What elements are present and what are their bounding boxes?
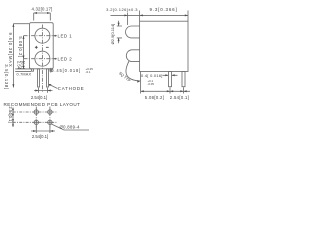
side bottom ext lead B: [183, 87, 185, 93]
side lead A: [169, 72, 172, 87]
minus polarity mark: [46, 46, 49, 48]
SQ TYP arc leader: [126, 61, 140, 82]
svg-text:3.2[0.126]±0.3: 3.2[0.126]±0.3: [106, 7, 138, 12]
arrow lead width right: [172, 74, 175, 76]
bottom peg left: [32, 69, 34, 71]
pcb vertical dim line: [12, 108, 14, 128]
pcb centerline row2: [13, 121, 57, 123]
side view housing outline: [140, 21, 188, 71]
svg-text:0.7MAX: 0.7MAX: [17, 73, 32, 77]
arrow lead pitch left: [35, 90, 38, 92]
svg-text:0.4[ 0.016]: 0.4[ 0.016]: [141, 73, 163, 78]
LED2 horizontal centerline: [24, 58, 57, 60]
arrow dim4.32 left: [34, 12, 37, 14]
arrow 2.54side bottom: [23, 66, 25, 69]
arrow 9.6 bottom: [12, 84, 14, 87]
pcb centerline col2: [49, 107, 51, 128]
dim 0.7MAX bracket: [15, 69, 31, 72]
dim 5.08 dimension line: [23, 36, 25, 59]
dim 9.3 dimension line: [140, 14, 188, 16]
svg-text:5.08[0.2]: 5.08[0.2]: [145, 95, 164, 100]
arrow dim4.32 right: [47, 12, 50, 14]
svg-text:RECOMMENDED PCB LAYOUT: RECOMMENDED PCB LAYOUT: [4, 102, 81, 107]
arrow 5.08 bottom: [23, 56, 25, 59]
svg-text:Ø2.9[0.114]: Ø2.9[0.114]: [110, 24, 115, 45]
dim 2.54 side dimension line: [23, 59, 25, 69]
arrow led1 leader: [53, 35, 56, 37]
side bottom dim line: [141, 90, 190, 92]
svg-text:2.54[0.1]: 2.54[0.1]: [31, 95, 47, 100]
arrow pcb lower right: [50, 130, 53, 132]
LED1 horizontal centerline: [24, 35, 57, 37]
arrow pcb vdim bottom: [12, 119, 14, 125]
arrow side bottom leadB left: [180, 90, 183, 92]
svg-text:[0.1]: [0.1]: [21, 61, 26, 69]
arrow 9.3 left: [140, 14, 143, 16]
dim 4.32 extension lines: [34, 13, 51, 21]
svg-text:5.08[0.2]: 5.08[0.2]: [18, 36, 23, 57]
front lead right (cathode): [47, 69, 49, 87]
pcb centerline row1: [13, 111, 57, 113]
front lead left: [38, 69, 40, 87]
dome diameter dim lines: [117, 21, 122, 44]
plus polarity mark: [35, 46, 38, 49]
pcb lower dim ext lines: [36, 125, 50, 133]
arrow sq typ arc: [137, 80, 140, 83]
svg-text:0.45[0.018]: 0.45[0.018]: [51, 68, 81, 73]
arrow lead width left: [165, 74, 168, 76]
arrow led2 leader: [53, 58, 56, 60]
arrow side bottom leadA left: [167, 90, 170, 92]
arrow pcb lower left: [33, 130, 36, 132]
svg-text:SQ TYP: SQ TYP: [118, 71, 132, 83]
svg-text:LED 1: LED 1: [58, 33, 73, 38]
arrow dome dia top: [118, 23, 120, 26]
arrow side bottom leadA right: [170, 90, 173, 92]
arrow dome dia bottom: [118, 38, 120, 41]
svg-text:9.3[0.366]: 9.3[0.366]: [149, 7, 177, 12]
lead square size leader tick: [50, 68, 52, 73]
arrow side bottom leadB right: [184, 90, 187, 92]
dim 3.2 dimension line: [111, 14, 140, 16]
svg-text:3.5[0.138]: 3.5[0.138]: [4, 64, 9, 90]
dim 9.6/3.5 dimension line: [12, 24, 14, 88]
svg-text:LED 2: LED 2: [58, 56, 73, 61]
svg-text:-0.1: -0.1: [86, 70, 91, 74]
svg-text:4.32[0.17]: 4.32[0.17]: [32, 7, 53, 12]
pcb lower dim line: [31, 130, 55, 132]
pcb hole crosshairs: [34, 109, 53, 125]
arrow 9.3 right: [185, 14, 188, 16]
svg-text:CATHODE: CATHODE: [58, 86, 85, 91]
dome LED 1: [126, 26, 140, 38]
LED 2 lens circle: [35, 51, 50, 66]
dim 4.32 dimension line: [34, 12, 51, 14]
pcb centerline col1: [35, 107, 37, 128]
front view housing outline: [30, 23, 54, 69]
LED2 leader: [54, 58, 57, 60]
LED1 leader: [54, 35, 57, 37]
cathode leader line: [49, 84, 58, 88]
svg-text:2.54[0.1]: 2.54[0.1]: [8, 106, 13, 122]
side bottom ext housing front: [140, 72, 142, 94]
arrow 5.08 top: [23, 36, 25, 39]
housing right edge extension up: [187, 11, 189, 22]
arrow 9.6 top: [12, 24, 14, 27]
svg-text:2.54[0.1]: 2.54[0.1]: [170, 95, 189, 100]
side lead B: [182, 72, 185, 87]
arrow 3.2 right: [124, 14, 127, 16]
dome LED 2: [126, 50, 139, 62]
svg-text:9.6[0.38]MAX: 9.6[0.38]MAX: [8, 33, 13, 68]
bottom peg right: [50, 69, 52, 71]
arrow pcb vdim top: [12, 109, 14, 115]
dim 3.2 extension line at dome tip: [127, 13, 129, 26]
pcb hole top-left: [34, 110, 38, 114]
front lead pitch dim line: [34, 90, 53, 92]
arrow side bottom at front edge: [141, 90, 144, 92]
svg-text:2.54[0.1]: 2.54[0.1]: [32, 134, 48, 139]
arrow cathode leader: [49, 84, 52, 86]
svg-text:Ø0.889-4: Ø0.889-4: [60, 124, 81, 129]
pcb hole bottom-right: [48, 120, 52, 124]
arrowheads: [12, 12, 188, 132]
arrow lead pitch right: [48, 90, 51, 92]
pcb hole top-right: [48, 110, 52, 114]
pcb hole bottom-left: [34, 120, 38, 124]
front lead pitch extension lines: [39, 88, 48, 93]
lead width arrows line: [163, 74, 178, 76]
vertical centerline: [41, 25, 43, 93]
svg-text:2.54: 2.54: [16, 61, 21, 70]
svg-text:-0.05: -0.05: [148, 82, 155, 86]
side bottom ext lead A: [169, 87, 171, 93]
dim 9.6 extension tick top: [13, 23, 29, 25]
leader lines for LED labels: [54, 36, 57, 59]
housing left edge extension up: [139, 11, 141, 22]
LED 1 lens circle: [35, 28, 50, 43]
pcb hole leader: [51, 124, 89, 130]
